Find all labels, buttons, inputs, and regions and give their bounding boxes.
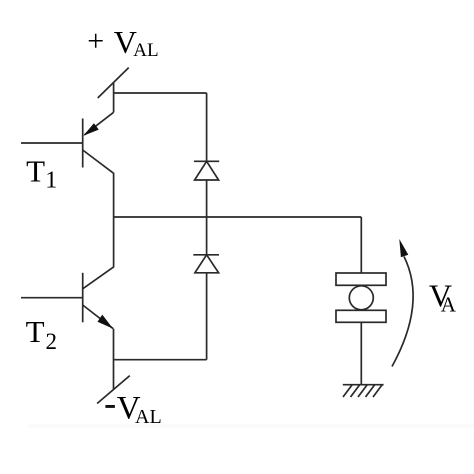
svg-text:T: T bbox=[26, 314, 45, 349]
svg-text:T: T bbox=[26, 153, 45, 188]
svg-text:A: A bbox=[441, 292, 457, 316]
svg-text:1: 1 bbox=[45, 167, 57, 193]
svg-text:AL: AL bbox=[133, 40, 158, 61]
svg-text:AL: AL bbox=[135, 406, 162, 428]
svg-text:+: + bbox=[87, 24, 104, 57]
svg-text:2: 2 bbox=[46, 329, 58, 354]
